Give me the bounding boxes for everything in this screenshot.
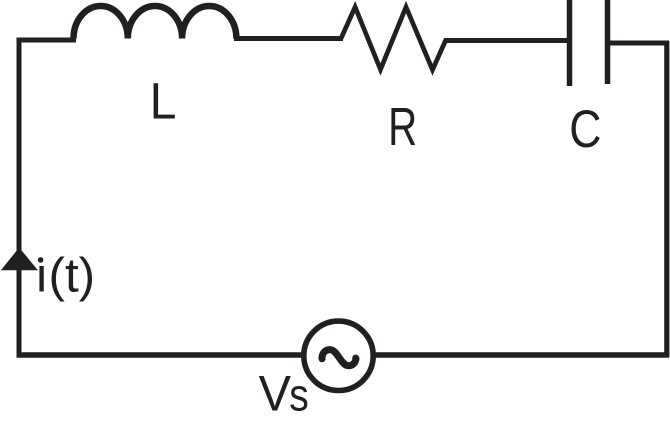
wire capacitor to right corner bbox=[608, 41, 670, 46]
source Vs circle bbox=[304, 321, 373, 390]
wire bottom horizontal bbox=[17, 352, 670, 358]
wire resistor to capacitor bbox=[444, 38, 568, 43]
wire top-left horizontal bbox=[17, 38, 77, 43]
capacitor C1 right plate bbox=[605, 0, 611, 84]
svg-text:V: V bbox=[259, 366, 291, 422]
dot of i bbox=[38, 257, 44, 263]
capacitor C1 left plate bbox=[567, 0, 573, 86]
svg-text:R: R bbox=[388, 98, 417, 158]
current arrow i(t) bbox=[1, 248, 38, 271]
svg-text:C: C bbox=[569, 100, 601, 158]
wire left vertical bbox=[17, 38, 22, 357]
inductor L1 bbox=[74, 6, 237, 39]
svg-text:L: L bbox=[150, 72, 177, 130]
svg-text:ı(t): ı(t) bbox=[35, 249, 95, 302]
wire inductor to resistor bbox=[234, 36, 343, 41]
resistor R1 bbox=[341, 7, 446, 70]
wire right vertical bbox=[664, 41, 669, 357]
svg-text:s: s bbox=[289, 370, 309, 420]
source Vs sine symbol bbox=[322, 350, 356, 366]
